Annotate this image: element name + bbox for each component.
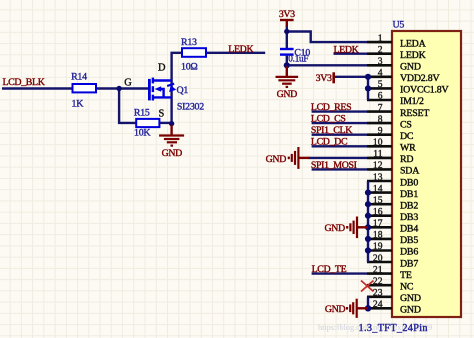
svg-text:S: S <box>159 108 165 119</box>
svg-text:GND: GND <box>324 223 345 234</box>
svg-text:SI2302: SI2302 <box>177 101 204 112</box>
svg-text:IM1/2: IM1/2 <box>400 96 424 107</box>
svg-text:15: 15 <box>373 195 383 206</box>
svg-text:1K: 1K <box>72 99 85 110</box>
svg-text:DB4: DB4 <box>400 224 418 235</box>
svg-text:DB6: DB6 <box>400 247 418 258</box>
svg-text:1: 1 <box>378 33 383 44</box>
svg-text:12: 12 <box>373 160 383 171</box>
svg-text:CS: CS <box>400 119 412 130</box>
svg-text:DB3: DB3 <box>400 212 418 223</box>
svg-text:5: 5 <box>378 79 383 90</box>
svg-text:24: 24 <box>373 299 383 310</box>
svg-text:2: 2 <box>378 44 383 55</box>
svg-text:18: 18 <box>373 230 383 241</box>
svg-text:11: 11 <box>373 149 382 160</box>
svg-text:RD: RD <box>400 154 413 165</box>
svg-text:G: G <box>124 78 132 89</box>
svg-text:R15: R15 <box>134 107 150 118</box>
svg-text:D: D <box>158 63 166 74</box>
svg-text:LEDA: LEDA <box>400 38 427 49</box>
svg-text:WR: WR <box>400 143 416 154</box>
svg-text:DB2: DB2 <box>400 200 418 211</box>
svg-text:R14: R14 <box>71 72 87 83</box>
svg-text:DB7: DB7 <box>400 258 418 269</box>
svg-text:16: 16 <box>373 207 383 218</box>
svg-text:21: 21 <box>373 264 383 275</box>
svg-text:17: 17 <box>373 218 383 229</box>
svg-text:GND: GND <box>277 89 298 100</box>
svg-text:3V3: 3V3 <box>279 9 295 20</box>
svg-text:LEDK: LEDK <box>228 44 254 55</box>
svg-text:LCD_DC: LCD_DC <box>311 137 348 148</box>
svg-text:SPI1_CLK: SPI1_CLK <box>311 125 353 136</box>
svg-text:8: 8 <box>378 114 383 125</box>
svg-text:NC: NC <box>400 282 414 293</box>
svg-text:23: 23 <box>373 288 383 299</box>
svg-text:LEDK: LEDK <box>334 45 360 56</box>
svg-text:GND: GND <box>266 154 287 165</box>
svg-text:4: 4 <box>378 68 383 79</box>
svg-text:U5: U5 <box>393 19 405 30</box>
svg-text:SDA: SDA <box>400 166 420 177</box>
svg-text:DC: DC <box>400 131 414 142</box>
svg-text:6: 6 <box>378 91 383 102</box>
svg-text:10K: 10K <box>134 128 151 139</box>
svg-text:RESET: RESET <box>400 108 429 119</box>
svg-text:10: 10 <box>373 137 383 148</box>
svg-text:9: 9 <box>378 125 383 136</box>
svg-text:GND: GND <box>162 148 183 159</box>
svg-text:7: 7 <box>378 102 383 113</box>
svg-text:19: 19 <box>373 241 383 252</box>
svg-text:20: 20 <box>373 253 383 264</box>
svg-text:13: 13 <box>373 172 383 183</box>
svg-text:DB5: DB5 <box>400 235 418 246</box>
svg-text:TE: TE <box>400 270 412 281</box>
svg-text:1.3_TFT_24Pin: 1.3_TFT_24Pin <box>359 323 428 334</box>
svg-text:3: 3 <box>378 56 383 67</box>
svg-text:IOVCC1.8V: IOVCC1.8V <box>400 85 449 96</box>
svg-text:LCD_BLK: LCD_BLK <box>3 77 46 88</box>
svg-text:14: 14 <box>373 183 383 194</box>
svg-text:LCD_CS: LCD_CS <box>311 114 346 125</box>
svg-text:3V3: 3V3 <box>316 73 332 84</box>
svg-text:22: 22 <box>373 276 383 287</box>
svg-text:10Ω: 10Ω <box>181 62 197 73</box>
svg-text:SPI1_MOSI: SPI1_MOSI <box>311 160 357 171</box>
svg-text:GND: GND <box>400 62 421 73</box>
svg-text:Q1: Q1 <box>177 85 189 96</box>
svg-text:R13: R13 <box>181 37 197 48</box>
svg-text:GND: GND <box>325 304 346 315</box>
svg-text:GND: GND <box>400 305 421 316</box>
svg-text:DB0: DB0 <box>400 177 418 188</box>
svg-text:0.1uF: 0.1uF <box>288 54 308 64</box>
svg-text:LCD_RES: LCD_RES <box>311 102 351 113</box>
svg-text:VDD2.8V: VDD2.8V <box>400 73 441 84</box>
svg-text:LCD_TE: LCD_TE <box>312 264 347 275</box>
svg-text:LEDK: LEDK <box>400 50 427 61</box>
svg-text:GND: GND <box>400 293 421 304</box>
svg-text:DB1: DB1 <box>400 189 418 200</box>
